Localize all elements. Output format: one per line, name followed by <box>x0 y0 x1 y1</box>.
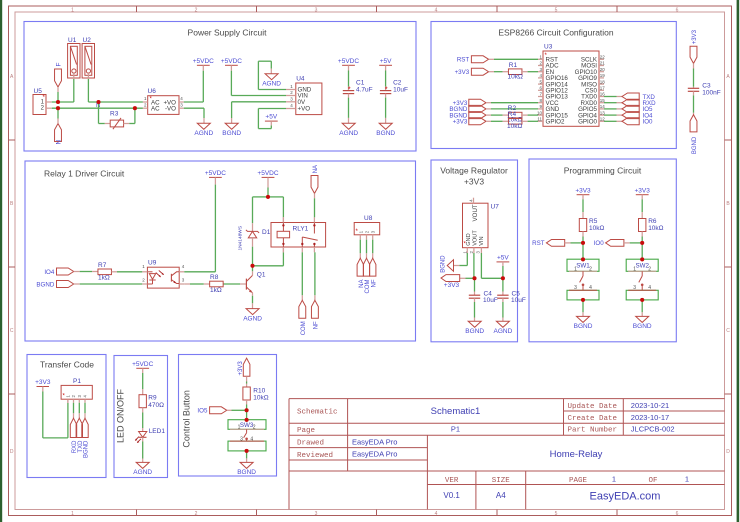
svg-text:3: 3 <box>315 511 318 517</box>
diode D1 1N4148WS (zener-style flyback) <box>238 226 271 251</box>
power flag +5V (C2) <box>379 58 392 65</box>
wire row1 U5 to U1 corner <box>52 101 74 103</box>
svg-text:Relay 1 Driver Circuit: Relay 1 Driver Circuit <box>44 169 125 179</box>
wire U4 +VO to +5V flag <box>258 109 286 129</box>
svg-text:+VO: +VO <box>298 106 311 113</box>
svg-text:R9: R9 <box>148 395 157 402</box>
svg-text:Create Date: Create Date <box>568 415 618 423</box>
wire Q1 collector <box>252 266 254 276</box>
wire +5VDC to U4 VIN <box>231 65 286 95</box>
wire IO5 flag to junction <box>227 409 247 411</box>
svg-text:EasyEDA Pro: EasyEDA Pro <box>352 450 397 459</box>
fuse U1 <box>68 37 80 78</box>
svg-text:JLCPCB-002: JLCPCB-002 <box>631 425 675 434</box>
svg-text:2: 2 <box>648 266 651 272</box>
svg-text:+3V3: +3V3 <box>444 282 460 289</box>
svg-text:+3V3: +3V3 <box>692 29 698 44</box>
wire U3 to IO4 flag <box>604 114 622 116</box>
svg-text:10kΩ: 10kΩ <box>507 123 522 130</box>
svg-text:+5VDC: +5VDC <box>193 58 214 65</box>
wire R5 to junction <box>582 232 584 243</box>
wire U3 to RXD flag <box>604 102 622 104</box>
svg-text:1: 1 <box>71 7 74 13</box>
wire F flag to row <box>57 87 59 102</box>
svg-text:470Ω: 470Ω <box>148 402 164 409</box>
section box ESP8266 Circuit Configuration <box>431 22 676 149</box>
svg-text:+3V3: +3V3 <box>455 69 470 76</box>
wire R7 to U9 pin1 <box>117 271 142 273</box>
junction dots overlay <box>56 100 644 453</box>
svg-text:C: C <box>726 328 730 334</box>
svg-text:AGND: AGND <box>133 469 152 476</box>
wire node to C5 <box>502 278 504 295</box>
net flag COM <box>299 300 307 335</box>
frame column ticks bottom <box>137 510 618 516</box>
net flag IO4 <box>622 112 653 120</box>
svg-text:4: 4 <box>435 511 438 517</box>
svg-text:LED ON/OFF: LED ON/OFF <box>116 388 126 443</box>
svg-text:BGND: BGND <box>36 281 54 288</box>
wire +3V3 to R10 <box>246 376 248 387</box>
resistor R10 10k <box>243 387 269 402</box>
resistor R5 10k <box>579 218 604 232</box>
power flag +5VDC (LED) <box>132 361 153 368</box>
pin stubs U6 right <box>179 102 184 108</box>
svg-text:V0.1: V0.1 <box>443 491 460 500</box>
svg-text:2023-10-21: 2023-10-21 <box>631 401 669 410</box>
wire NA to relay pin4 <box>314 193 316 217</box>
svg-text:Update Date: Update Date <box>568 403 618 411</box>
svg-text:100nF: 100nF <box>702 89 720 96</box>
svg-text:1: 1 <box>574 266 577 272</box>
resistor R2 10k <box>503 105 528 124</box>
net flag IO0 <box>594 240 624 248</box>
wire C4 to BGND <box>474 298 476 321</box>
switch SW3 <box>228 420 266 451</box>
wire U8 pin2 to COM flag <box>366 240 368 259</box>
ground AGND (C5) <box>494 321 513 335</box>
wire N flag stem <box>57 108 59 123</box>
svg-text:P1: P1 <box>73 378 81 385</box>
svg-text:+3V3: +3V3 <box>453 119 468 126</box>
net flag BGND (U3 lower) <box>449 112 486 120</box>
svg-text:U5: U5 <box>34 88 43 95</box>
fuse U2 <box>82 37 94 78</box>
svg-text:1: 1 <box>238 425 241 431</box>
svg-text:AGND: AGND <box>262 81 281 88</box>
wire row2 U5 to U6 <box>52 107 143 109</box>
svg-text:D: D <box>726 449 730 455</box>
svg-text:+5V: +5V <box>380 58 392 65</box>
power flag +5V (U7) <box>497 255 510 262</box>
wire node to relay coil pin2 <box>253 247 284 266</box>
frame column ticks top <box>137 6 618 12</box>
svg-text:BGND: BGND <box>633 323 652 330</box>
connector U8 <box>354 215 380 235</box>
svg-text:10kΩ: 10kΩ <box>589 225 604 232</box>
power flag +5VDC (opto supply) <box>205 170 226 177</box>
net flag +3V3 (EN pullup) <box>455 68 489 76</box>
wire U3 to IO5 flag <box>604 108 622 110</box>
net flag RXD (P1) <box>70 418 78 453</box>
svg-text:1kΩ: 1kΩ <box>98 275 110 282</box>
ground AGND (U6) <box>194 123 213 137</box>
net flag NF <box>311 300 319 329</box>
power flag +5VDC (C1) <box>338 58 359 65</box>
svg-text:+5VDC: +5VDC <box>221 58 242 65</box>
svg-text:Page: Page <box>297 427 315 435</box>
section box Voltage Regulator <box>431 160 518 342</box>
ground AGND (above U4) <box>262 74 281 88</box>
net flag +3V3 (U7 output) <box>441 275 460 289</box>
wire U3 to TXD flag <box>604 96 622 98</box>
ESP8266 module U3 <box>543 44 599 127</box>
wire +5V to node <box>502 262 504 278</box>
title block table <box>289 399 725 510</box>
pin 2 stub U5 <box>46 107 52 109</box>
net flag NF (U8) <box>370 258 378 287</box>
svg-text:18: 18 <box>600 79 606 84</box>
power flag +3V3 (button) <box>238 358 250 376</box>
wire C5 to AGND <box>502 298 504 321</box>
svg-text:BGND: BGND <box>376 130 395 137</box>
svg-text:Drawed: Drawed <box>297 440 324 448</box>
svg-text:1: 1 <box>612 474 616 483</box>
wire RST flag to junction <box>565 242 583 244</box>
resistor R9 470 <box>139 395 164 409</box>
svg-text:1: 1 <box>633 266 636 272</box>
svg-text:1N4148WS: 1N4148WS <box>238 226 244 251</box>
varistor R3 <box>105 110 130 129</box>
wire IO4 to R7 <box>74 271 92 273</box>
switch SW1 <box>567 259 599 300</box>
svg-text:2: 2 <box>253 425 256 431</box>
svg-text:Reviewed: Reviewed <box>297 452 333 460</box>
wire junction to SW2 <box>641 243 643 259</box>
svg-text:+3V3: +3V3 <box>575 187 591 194</box>
pin stubs RLY1 <box>283 217 314 252</box>
wire junction to SW1 <box>582 243 584 259</box>
svg-text:N: N <box>55 140 62 145</box>
ground BGND (SW2) <box>633 316 652 330</box>
svg-text:GPIO2: GPIO2 <box>546 119 565 126</box>
wire P1 to TXD flag <box>78 403 80 418</box>
svg-text:U8: U8 <box>364 215 373 222</box>
ground BGND (C2) <box>376 123 395 137</box>
svg-text:4.7uF: 4.7uF <box>356 87 373 94</box>
connector P1 <box>61 378 92 399</box>
wire D1 anode to collector node <box>252 238 254 266</box>
wire LED1 to AGND <box>142 437 144 462</box>
wire U9 pin4 up to +5VDC <box>184 177 215 271</box>
section box Control Button <box>179 355 277 477</box>
net flag BGND (P1) <box>82 418 90 458</box>
svg-text:GND: GND <box>466 233 472 245</box>
svg-text:C1: C1 <box>356 80 365 87</box>
svg-text:+5VDC: +5VDC <box>132 361 153 368</box>
svg-text:10uF: 10uF <box>483 297 498 304</box>
ground BGND (SW3) <box>237 462 256 476</box>
power flag +3V3 (P1) <box>35 379 51 386</box>
svg-text:1: 1 <box>685 474 689 483</box>
svg-text:ESP8266 Circuit Configuration: ESP8266 Circuit Configuration <box>498 28 614 38</box>
wire node to C4 <box>474 278 476 295</box>
wire R8 to Q1 base <box>223 283 246 285</box>
svg-text:R4: R4 <box>508 111 517 118</box>
svg-text:1: 1 <box>71 511 74 517</box>
svg-text:21: 21 <box>600 61 606 66</box>
svg-text:C3: C3 <box>702 82 711 89</box>
svg-text:1kΩ: 1kΩ <box>210 287 222 294</box>
pin stubs U9 <box>142 272 184 284</box>
svg-text:SW3: SW3 <box>240 422 254 429</box>
wire +5VDC to R9 <box>142 368 144 394</box>
wire RST to U3 <box>489 58 538 60</box>
resistor R7 1k <box>92 262 117 282</box>
net flag RST (U3) <box>457 56 489 64</box>
capacitor C1 4.7uF <box>343 80 373 94</box>
net flag IO0 <box>622 118 653 126</box>
wire +5VDC to C1 <box>348 65 350 90</box>
svg-text:BGND: BGND <box>692 136 698 154</box>
svg-text:Schematic1: Schematic1 <box>431 406 481 417</box>
svg-text:C: C <box>10 328 14 334</box>
capacitor C5 10uF <box>497 290 526 304</box>
frame row ticks left <box>9 140 16 394</box>
svg-text:Part Number: Part Number <box>568 427 618 435</box>
svg-text:2: 2 <box>195 511 198 517</box>
capacitor C2 10uF <box>380 80 408 94</box>
svg-text:2023-10-17: 2023-10-17 <box>631 413 669 422</box>
svg-text:+5VDC: +5VDC <box>205 170 226 177</box>
svg-text:AGND: AGND <box>339 130 358 137</box>
net flag BGND (U3 lower) <box>449 105 486 113</box>
pin stubs P1 <box>68 399 85 403</box>
svg-text:6: 6 <box>676 511 679 517</box>
svg-text:AGND: AGND <box>243 315 262 322</box>
resistor R4 10k <box>503 111 528 130</box>
net flag N (bottom) <box>55 124 63 145</box>
ground AGND (LED) <box>133 462 152 476</box>
svg-text:5: 5 <box>555 7 558 13</box>
svg-text:R1: R1 <box>509 62 518 69</box>
svg-text:R3: R3 <box>110 110 119 117</box>
wire +3V3 to VCC <box>486 102 538 104</box>
wire U3 to IO0 flag <box>604 120 622 122</box>
ground BGND (SW1) <box>574 316 593 330</box>
svg-text:Programming Circuit: Programming Circuit <box>564 166 642 176</box>
frame row letters left <box>10 74 14 455</box>
wire Q1 emitter to AGND <box>252 293 254 309</box>
wire P1 to RXD flag <box>73 403 75 418</box>
wire C3 to BGND flag <box>693 91 695 114</box>
wire SW1 to BGND <box>582 300 584 317</box>
svg-text:6: 6 <box>676 7 679 13</box>
svg-text:+3V3: +3V3 <box>238 361 244 376</box>
net flag BGND (opto) <box>36 281 73 289</box>
svg-text:3: 3 <box>315 7 318 13</box>
wire BGND to U9 pin2 <box>74 283 143 285</box>
svg-text:Power Supply Circuit: Power Supply Circuit <box>188 28 268 38</box>
frame row ticks right <box>725 140 732 394</box>
wire U4 GND loop to AGND <box>258 61 286 89</box>
svg-text:Home-Relay: Home-Relay <box>550 449 603 460</box>
wire U1 down to row1 <box>73 73 75 102</box>
svg-text:RLY1: RLY1 <box>293 226 309 233</box>
svg-text:D1: D1 <box>262 229 271 236</box>
svg-text:NF: NF <box>314 321 320 329</box>
net flag F <box>55 63 63 88</box>
svg-text:NA: NA <box>359 280 365 288</box>
svg-text:VIN: VIN <box>479 236 485 245</box>
wire +3V3 to R1 <box>489 71 503 73</box>
svg-text:+3V3: +3V3 <box>35 379 51 386</box>
pin stubs U3 left with numbers <box>537 55 543 122</box>
relay RLY1 <box>271 223 326 248</box>
svg-text:SIZE: SIZE <box>492 477 511 485</box>
wire U8 pin3 to NF flag <box>372 240 374 259</box>
svg-text:10uF: 10uF <box>511 297 526 304</box>
wire +3V3 to C3 <box>693 63 695 88</box>
svg-text:17: 17 <box>600 86 606 91</box>
net flag TXD (P1) <box>76 418 84 452</box>
svg-text:AGND: AGND <box>494 328 513 335</box>
net flag IO5 <box>197 407 226 415</box>
svg-text:20: 20 <box>600 67 606 72</box>
svg-text:NA: NA <box>313 165 319 173</box>
svg-text:VOUT: VOUT <box>472 230 478 246</box>
net flag IO5 <box>622 105 653 113</box>
wire BGND to R2 <box>486 114 503 116</box>
wire R4 to GPIO2 <box>528 120 538 122</box>
svg-text:Schematic: Schematic <box>297 409 338 417</box>
svg-text:COM: COM <box>301 321 307 335</box>
svg-text:+3V3: +3V3 <box>635 187 651 194</box>
LED LED1 <box>135 428 165 443</box>
wire relay pin3 to COM flag <box>301 252 303 300</box>
svg-text:IO5: IO5 <box>197 408 208 415</box>
ground AGND (Q1) <box>243 309 262 323</box>
frame row letters right <box>726 74 730 455</box>
svg-text:+5VDC: +5VDC <box>338 58 359 65</box>
svg-text:Control Button: Control Button <box>181 390 191 448</box>
svg-text:BGND: BGND <box>465 328 484 335</box>
svg-text:10kΩ: 10kΩ <box>648 225 663 232</box>
svg-text:RST: RST <box>532 240 545 247</box>
wire junction to D1 cathode <box>253 197 269 232</box>
svg-text:+5V: +5V <box>497 255 509 262</box>
svg-text:U4: U4 <box>296 76 305 83</box>
svg-text:D: D <box>10 449 14 455</box>
wire R2 to GPIO15 <box>528 114 538 116</box>
svg-text:2: 2 <box>589 266 592 272</box>
pin stubs U3 right with numbers <box>599 55 605 122</box>
svg-text:+5V: +5V <box>265 114 277 121</box>
wire R10 to junction <box>246 400 248 410</box>
power flag +5V (U4 output) <box>265 114 278 121</box>
green margin bar right <box>737 0 740 522</box>
regulator U7 <box>462 199 499 254</box>
net flag RST <box>532 240 565 248</box>
capacitor C4 10uF <box>469 290 498 304</box>
wire +3V3 to R6 <box>641 195 643 219</box>
wire node to +3V3 flag <box>460 277 475 279</box>
wire U4 0V to BGND <box>232 102 286 124</box>
wire SW3 to BGND <box>246 451 248 463</box>
wire U8 pin1 to NA flag <box>359 240 361 259</box>
svg-text:RST: RST <box>457 57 470 64</box>
svg-text:PAGE: PAGE <box>569 477 588 485</box>
svg-text:AGND: AGND <box>194 130 213 137</box>
svg-text:IO4: IO4 <box>44 269 55 276</box>
power flag +5VDC (relay coil) <box>257 170 278 177</box>
svg-text:R6: R6 <box>648 218 657 225</box>
svg-text:GPIO0: GPIO0 <box>578 119 597 126</box>
net flag TXD <box>622 93 655 101</box>
wire R9 to LED1 <box>142 408 144 432</box>
section box Programming Circuit <box>529 159 676 342</box>
svg-text:EasyEDA.com: EasyEDA.com <box>590 491 661 503</box>
svg-text:C2: C2 <box>393 80 402 87</box>
wire R1 to EN <box>528 71 538 73</box>
wire +5V to C2 <box>385 65 387 90</box>
wire SW2 to BGND <box>641 300 643 317</box>
net flag NA (U8) <box>357 258 365 288</box>
wire U7 VOUT down to +3V3 node <box>473 253 475 278</box>
svg-text:4: 4 <box>435 7 438 13</box>
wire +3V3 to R5 <box>582 195 584 219</box>
ground BGND (U4 input side) <box>222 123 241 137</box>
section box Power Supply Circuit <box>24 22 416 152</box>
svg-text:COM: COM <box>365 280 371 294</box>
svg-text:11: 11 <box>537 117 542 122</box>
svg-text:EasyEDA Pro: EasyEDA Pro <box>352 437 397 446</box>
svg-text:R7: R7 <box>98 262 107 269</box>
wire relay pin5 to NF flag <box>314 252 316 300</box>
wire +3V3 to P1 pin1 <box>43 387 68 438</box>
capacitor C3 100nF <box>688 82 721 96</box>
wire R6 to junction <box>641 232 643 243</box>
net flag NA (relay NO) <box>311 165 319 193</box>
svg-text:10kΩ: 10kΩ <box>253 395 268 402</box>
svg-text:+3V3: +3V3 <box>464 176 484 186</box>
net flag +3V3 (U3 lower) <box>453 99 486 107</box>
svg-text:2: 2 <box>195 7 198 13</box>
switch SW2 <box>626 259 658 300</box>
svg-text:IO0: IO0 <box>594 240 605 247</box>
resistor R1 10k <box>503 62 528 81</box>
svg-text:AC: AC <box>151 106 160 113</box>
svg-text:-VO: -VO <box>165 106 176 113</box>
wire junction to relay coil pin1 <box>268 197 283 223</box>
wire C1 to AGND <box>348 94 350 124</box>
wire U6 +VO to +5VDC <box>184 65 204 102</box>
svg-text:Q1: Q1 <box>257 271 266 278</box>
net flag COM (U8) <box>363 258 371 293</box>
section box Transfer Code <box>27 355 106 478</box>
section box LED ON/OFF <box>114 356 168 478</box>
wire U7 GND to BGND flag <box>454 253 468 266</box>
svg-text:22: 22 <box>600 55 606 60</box>
wire P1 to BGND flag <box>84 403 86 418</box>
net flag IO4 (relay input) <box>44 268 73 276</box>
wire IO0 flag to junction <box>624 242 642 244</box>
wire U2 down and right to row1 <box>88 73 142 102</box>
net flag RXD <box>622 99 656 107</box>
pin stubs U8 <box>360 235 372 240</box>
wire varistor to row2 <box>129 108 135 123</box>
ground AGND (C1) <box>339 123 358 137</box>
